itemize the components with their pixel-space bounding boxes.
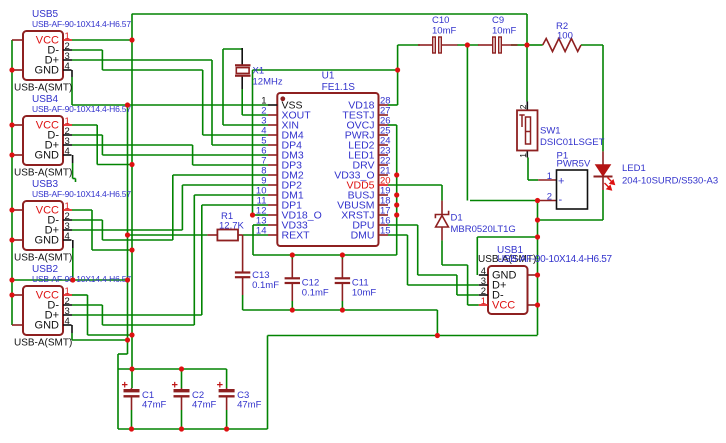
svg-text:USB-AF-90-10X14.4-H6.57: USB-AF-90-10X14.4-H6.57 [497, 254, 613, 265]
svg-text:+: + [172, 380, 178, 392]
svg-text:0.1mF: 0.1mF [302, 287, 329, 298]
svg-text:GND: GND [35, 320, 60, 332]
svg-text:REXT: REXT [282, 230, 311, 242]
svg-text:1: 1 [481, 296, 486, 307]
svg-text:15: 15 [380, 226, 391, 237]
svg-text:U1: U1 [322, 71, 335, 82]
svg-text:SW1: SW1 [540, 126, 561, 137]
svg-text:USB-AF-90-10X14.4-H6.57: USB-AF-90-10X14.4-H6.57 [32, 189, 131, 199]
svg-text:4: 4 [65, 61, 70, 72]
svg-text:10mF: 10mF [352, 287, 376, 298]
svg-text:C9: C9 [492, 15, 504, 26]
svg-text:PWR5V: PWR5V [557, 159, 591, 170]
svg-text:USB-A(SMT): USB-A(SMT) [14, 338, 72, 349]
svg-text:USB-A(SMT): USB-A(SMT) [14, 253, 72, 264]
svg-text:DMU: DMU [351, 230, 375, 242]
svg-text:USB-A(SMT): USB-A(SMT) [14, 83, 72, 94]
svg-text:X1: X1 [253, 66, 265, 77]
svg-text:+: + [217, 380, 223, 392]
svg-text:+: + [122, 380, 128, 392]
svg-text:DSIC01LSGET: DSIC01LSGET [540, 137, 605, 148]
svg-text:12MHz: 12MHz [253, 77, 283, 88]
svg-text:47mF: 47mF [192, 400, 216, 411]
svg-text:204-10SURD/S530-A3: 204-10SURD/S530-A3 [622, 176, 718, 187]
svg-text:14: 14 [256, 226, 267, 237]
svg-text:USB-AF-90-10X14.4-H6.57: USB-AF-90-10X14.4-H6.57 [32, 104, 131, 114]
svg-text:C10: C10 [432, 15, 449, 26]
svg-text:-: - [559, 194, 563, 206]
svg-text:47mF: 47mF [142, 400, 166, 411]
svg-text:USB-AF-90-10X14.4-H6.57: USB-AF-90-10X14.4-H6.57 [32, 274, 131, 284]
svg-text:FE1.1S: FE1.1S [322, 82, 356, 93]
svg-text:10mF: 10mF [492, 26, 516, 37]
svg-text:47mF: 47mF [237, 400, 261, 411]
svg-text:MBR0520LT1G: MBR0520LT1G [451, 224, 516, 235]
svg-text:1: 1 [518, 153, 528, 158]
svg-text:VCC: VCC [492, 300, 515, 312]
svg-text:D1: D1 [451, 213, 463, 224]
svg-text:100: 100 [557, 31, 573, 42]
svg-text:GND: GND [35, 65, 60, 77]
svg-text:4: 4 [65, 316, 70, 327]
svg-text:1: 1 [547, 171, 552, 182]
svg-text:4: 4 [65, 146, 70, 157]
svg-text:2: 2 [518, 104, 528, 109]
svg-text:USB-AF-90-10X14.4-H6.57: USB-AF-90-10X14.4-H6.57 [32, 19, 131, 29]
svg-text:12.7K: 12.7K [219, 221, 244, 232]
svg-text:4: 4 [65, 231, 70, 242]
svg-text:LED1: LED1 [622, 163, 646, 174]
svg-text:GND: GND [35, 235, 60, 247]
svg-text:USB-A(SMT): USB-A(SMT) [14, 168, 72, 179]
svg-text:2: 2 [547, 192, 552, 203]
svg-text:0.1mF: 0.1mF [252, 280, 279, 291]
svg-text:+: + [558, 176, 564, 188]
svg-text:10mF: 10mF [432, 26, 456, 37]
svg-text:GND: GND [35, 150, 60, 162]
